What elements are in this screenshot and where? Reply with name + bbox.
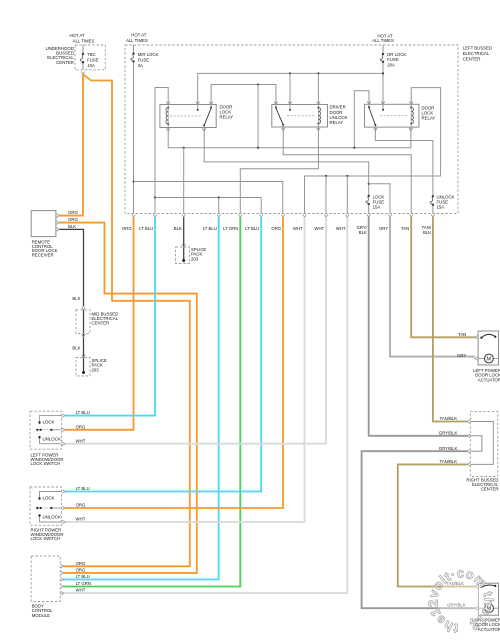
wire relay2 switch to pin13 tan <box>283 127 411 213</box>
svg-text:LT GRN: LT GRN <box>223 226 238 231</box>
splice dot 203 <box>182 259 185 262</box>
node pin4 drop <box>218 196 220 198</box>
wire ORG pin7 to right switch <box>65 217 283 508</box>
svg-text:FUSE: FUSE <box>387 57 399 62</box>
svg-text:WHT: WHT <box>76 438 86 443</box>
wire LT GRN pin5 to BCM <box>64 217 241 586</box>
wire ORG from TBC fuse to receiver <box>59 74 83 215</box>
wire GRY/BLK pin11 to right bussed center <box>369 217 468 436</box>
svg-text:LOCK: LOCK <box>43 496 55 501</box>
wire branch to pin7 <box>134 182 283 214</box>
svg-text:WHT: WHT <box>336 226 346 231</box>
wire LT BLU pin4 to BCM <box>64 217 219 579</box>
wire relay1 right pin to relay2 left pin <box>211 85 276 105</box>
node on mir lock line feeding ORG pin7 <box>132 180 134 182</box>
svg-text:TAN: TAN <box>401 226 409 231</box>
wire ORG from TBC fuse split to BCM pin1 <box>64 74 190 566</box>
splice pack 203 left box <box>76 358 90 377</box>
svg-text:GRY/BLK: GRY/BLK <box>439 446 458 451</box>
mid bussed connectors <box>82 307 86 310</box>
svg-text:WHT: WHT <box>76 588 86 593</box>
svg-text:GRY/BLK: GRY/BLK <box>439 431 458 436</box>
node bus to relay2 right pin <box>317 72 319 74</box>
mid bussed electrical center box <box>76 310 90 334</box>
svg-text:BLK: BLK <box>68 224 76 229</box>
relay pin connectors <box>166 102 170 105</box>
svg-text:ALL TIMES: ALL TIMES <box>126 38 148 43</box>
svg-text:BLK: BLK <box>423 230 431 235</box>
svg-text:WHT: WHT <box>314 226 324 231</box>
node lt blu branch <box>154 196 156 198</box>
svg-text:TAN/BLK: TAN/BLK <box>440 416 458 421</box>
svg-text:BLK: BLK <box>72 296 80 301</box>
wire pin9 drop <box>325 176 327 213</box>
remote control door lock receiver box <box>31 211 56 237</box>
svg-text:LOCK SWITCH: LOCK SWITCH <box>31 461 61 466</box>
wire WHT pin10 to BCM <box>64 217 348 593</box>
connector at underhood output <box>81 71 85 74</box>
right bussed electrical center box <box>470 412 498 477</box>
wire lt blu branch to pin4 and pin6 <box>155 198 261 214</box>
svg-text:ORG: ORG <box>271 226 281 231</box>
relay K3 DOOR LOCK RELAY (right) <box>365 104 419 127</box>
right bussed connectors <box>467 420 470 424</box>
svg-text:15A: 15A <box>373 204 381 209</box>
svg-text:LT BLU: LT BLU <box>76 486 90 491</box>
wire ORG pin1 to left switch <box>65 217 134 430</box>
svg-text:TBC: TBC <box>87 52 96 57</box>
wire BLK pin3 to splice pack 203 <box>183 217 185 260</box>
wire WHT pin9 to left switch <box>65 217 326 444</box>
left bussed electrical center box <box>125 45 458 214</box>
wire fuse lead TBC <box>82 45 84 54</box>
wire relay3 switch to unlock fuse and pin14 <box>375 127 433 213</box>
svg-text:UNLOCK: UNLOCK <box>43 515 61 520</box>
jumper gry/blk inside right bussed center <box>470 436 482 451</box>
svg-text:WHT: WHT <box>293 226 303 231</box>
svg-text:CENTER: CENTER <box>463 57 481 62</box>
wire ORG receiver to BCM pin2 <box>59 223 197 573</box>
svg-text:FUSE: FUSE <box>138 58 150 63</box>
bcm pin connectors <box>61 565 64 569</box>
svg-text:FUSE: FUSE <box>87 58 99 63</box>
fuse LOCK 15A <box>368 195 370 197</box>
svg-text:RELAY: RELAY <box>220 115 234 120</box>
wire dr lock fuse feed to relay3 mid pin <box>382 45 384 54</box>
svg-text:UNLOCK: UNLOCK <box>43 436 61 441</box>
wire relay3 coil to wht rail <box>305 88 441 213</box>
svg-text:BLK: BLK <box>359 230 367 235</box>
svg-text:BLK: BLK <box>174 226 182 231</box>
svg-text:MIR LOCK: MIR LOCK <box>138 52 159 57</box>
relay K1 DOOR LOCK RELAY (left) <box>160 105 216 128</box>
svg-text:ELECTRICAL: ELECTRICAL <box>463 51 490 56</box>
svg-text:LOCK: LOCK <box>43 420 55 425</box>
right power door lock actuator <box>478 583 498 615</box>
svg-text:3A: 3A <box>138 63 143 68</box>
watermark the12volt.com <box>425 565 496 636</box>
svg-text:TAN: TAN <box>458 332 466 337</box>
svg-text:RELAY: RELAY <box>422 116 436 121</box>
svg-text:ALL TIMES: ALL TIMES <box>372 38 394 43</box>
svg-text:ACTUATOR: ACTUATOR <box>478 377 500 382</box>
wire pin3 drop <box>183 148 185 213</box>
wire LT BLU pin6 to right switch <box>65 217 261 491</box>
splice right connector <box>182 244 186 247</box>
svg-text:15A: 15A <box>437 204 445 209</box>
wire pin10 drop <box>346 176 348 213</box>
svg-text:ALL TIMES: ALL TIMES <box>73 38 95 43</box>
svg-text:LT BLU: LT BLU <box>245 226 259 231</box>
svg-text:LEFT BUSSED: LEFT BUSSED <box>463 46 492 51</box>
right power window/door lock switch <box>30 487 62 525</box>
svg-text:M: M <box>487 356 491 362</box>
svg-text:ORG: ORG <box>68 210 78 215</box>
svg-text:GRY: GRY <box>379 226 388 231</box>
wire BLK through mid bussed center to splice <box>83 310 85 373</box>
fuse UNLOCK 15A <box>432 195 434 197</box>
svg-text:MODULE: MODULE <box>32 613 51 618</box>
node wht rail pin9 <box>325 175 327 177</box>
svg-text:DR LOCK: DR LOCK <box>387 52 406 57</box>
node bus to relay2 mid pin <box>289 72 291 74</box>
wire TAN pin13 to left actuator <box>411 217 475 337</box>
jumper tan/blk inside right bussed center <box>470 422 493 465</box>
svg-text:CENTER: CENTER <box>481 487 499 492</box>
svg-text:10A: 10A <box>87 63 95 68</box>
node lower bus link <box>257 147 259 149</box>
svg-text:RELAY: RELAY <box>330 120 344 125</box>
svg-text:ORG: ORG <box>122 226 132 231</box>
wire relay2 coil to pin5 lt grn <box>240 127 318 213</box>
body control module box <box>31 556 60 602</box>
wire pin4 drop <box>218 198 220 214</box>
svg-text:LT BLU: LT BLU <box>76 574 90 579</box>
node gry branch above lock fuse <box>368 183 370 185</box>
relay K2 DRIVER DOOR UNLOCK RELAY <box>272 105 328 128</box>
wire relay3 left pin link <box>354 91 369 148</box>
left power window/door lock switch <box>30 411 62 449</box>
svg-text:HOT AT: HOT AT <box>69 33 84 38</box>
wire relay1 common to power bus <box>198 73 383 104</box>
wire TAN/BLK pin14 to right bussed center <box>433 217 467 421</box>
svg-text:203: 203 <box>92 367 100 372</box>
node dr lock fuse to bus <box>382 72 384 74</box>
receiver pin connectors <box>56 214 59 218</box>
svg-text:CENTER: CENTER <box>92 321 110 326</box>
svg-text:ORG: ORG <box>76 568 86 573</box>
svg-text:20A: 20A <box>387 62 395 67</box>
svg-text:ORG: ORG <box>68 217 78 222</box>
fuse MIR LOCK 3A <box>132 53 134 55</box>
svg-text:LT BLU: LT BLU <box>139 226 153 231</box>
svg-text:ORG: ORG <box>76 561 86 566</box>
svg-text:GRY: GRY <box>457 353 466 358</box>
svg-text:ORG: ORG <box>76 424 86 429</box>
wire mir lock fuse feed to pin1 <box>133 45 135 54</box>
svg-text:BLK: BLK <box>72 346 80 351</box>
wire GRY pin12 to left actuator <box>390 217 475 356</box>
wire WHT pin8 to right switch <box>65 217 305 522</box>
wire drop to relay2 right pin <box>317 73 319 104</box>
svg-text:HOT AT: HOT AT <box>131 32 146 37</box>
wire lt blu loop pin2 to relay1 coil <box>155 88 168 214</box>
splice left connector <box>82 355 86 358</box>
wire LT BLU pin2 to left switch <box>65 217 155 415</box>
node link to lower bus <box>257 83 259 85</box>
svg-text:203: 203 <box>191 256 199 261</box>
underhood bussed electrical center box <box>75 45 105 70</box>
svg-text:TAN/BLK: TAN/BLK <box>440 459 458 464</box>
wire BLK receiver ground <box>59 229 83 306</box>
svg-text:CENTER: CENTER <box>56 60 74 65</box>
node lower bus relay3 link <box>353 147 355 149</box>
svg-text:LOCK SWITCH: LOCK SWITCH <box>31 536 61 541</box>
svg-text:WHT: WHT <box>76 517 86 522</box>
ground splice dot left <box>82 371 85 374</box>
svg-text:LT BLU: LT BLU <box>76 410 90 415</box>
svg-text:RECEIVER: RECEIVER <box>32 252 54 257</box>
wire drop link to lower bus <box>257 85 259 148</box>
svg-text:LT GRN: LT GRN <box>76 581 91 586</box>
fuse DR LOCK 20A <box>382 53 384 55</box>
node lower bus pin3 blk <box>183 147 185 149</box>
connectors big box bottom pins <box>132 214 136 217</box>
svg-text:ORG: ORG <box>76 503 86 508</box>
fuse TBC 10A <box>82 53 84 55</box>
wire GRY/BLK right bussed center to right actuator <box>362 451 475 608</box>
left power door lock actuator <box>478 331 498 365</box>
svg-text:LT BLU: LT BLU <box>203 226 217 231</box>
wire TAN/BLK right bussed center to right actuator <box>398 464 475 586</box>
node wht rail pin10 <box>346 175 348 177</box>
wire gry branch to pin12 <box>369 184 390 213</box>
splice pack 203 right box <box>176 247 190 264</box>
wire lower bus relay1 to relay3 <box>168 127 411 148</box>
wire relay1 switch to lock fuse and pin11 <box>204 128 369 214</box>
wire drop to relay2 mid pin <box>289 73 291 104</box>
